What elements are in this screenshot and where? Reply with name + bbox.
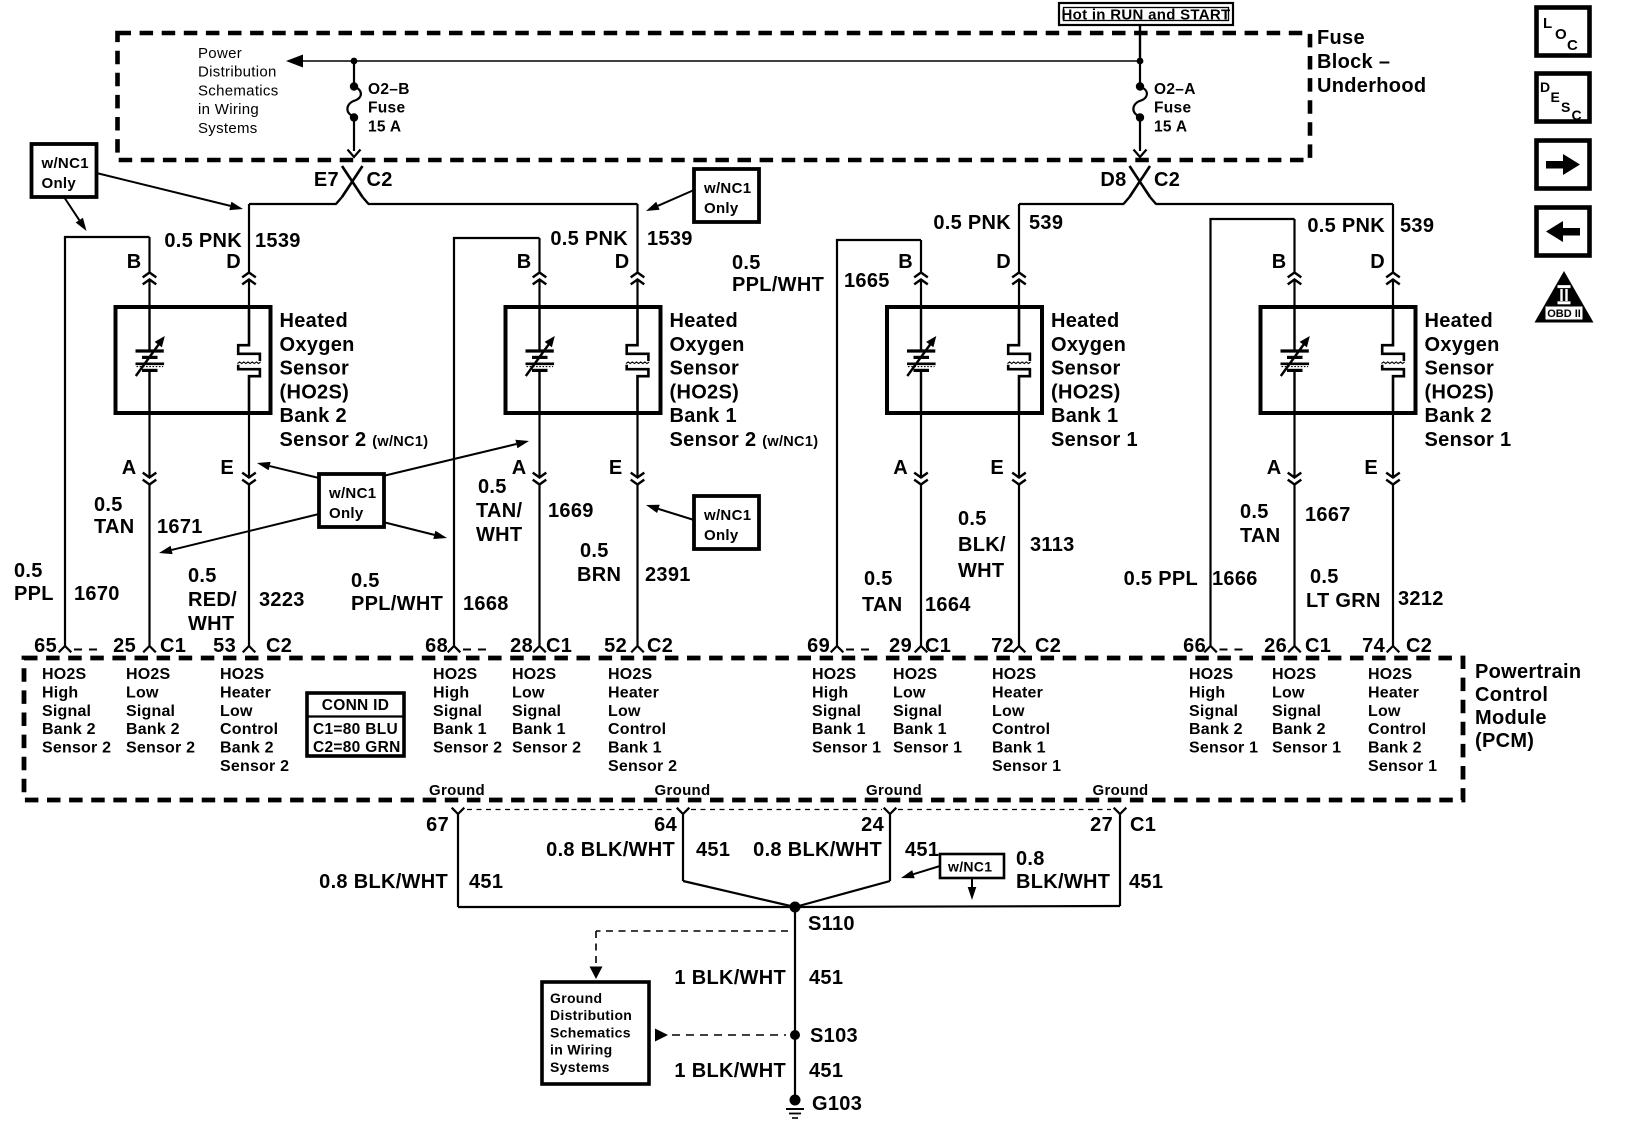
svg-text:Oxygen: Oxygen [1425,334,1500,356]
svg-text:Heated: Heated [1051,310,1120,332]
svg-text:Low: Low [893,684,926,701]
svg-text:29: 29 [889,635,912,657]
svg-text:1668: 1668 [463,593,509,615]
svg-text:O2–A: O2–A [1154,81,1196,98]
svg-text:1539: 1539 [647,228,693,250]
svg-text:Bank 2: Bank 2 [220,740,274,757]
svg-text:451: 451 [809,967,843,989]
svg-text:68: 68 [425,635,448,657]
svg-text:Fuse: Fuse [1154,100,1191,117]
svg-text:Signal: Signal [1189,703,1238,720]
svg-text:451: 451 [469,871,503,893]
svg-text:(HO2S): (HO2S) [280,381,350,403]
svg-text:1539: 1539 [255,230,301,252]
svg-text:Signal: Signal [812,703,861,720]
svg-text:Only: Only [329,505,364,522]
svg-text:C2: C2 [266,635,292,657]
svg-text:Bank 1: Bank 1 [812,721,866,738]
svg-text:2391: 2391 [645,564,691,586]
svg-text:15 A: 15 A [1154,119,1187,136]
svg-text:LT GRN: LT GRN [1306,590,1381,612]
svg-text:TAN/: TAN/ [476,500,523,522]
svg-text:C1=80 BLU: C1=80 BLU [313,721,398,738]
svg-text:C1: C1 [160,635,186,657]
svg-text:Fuse: Fuse [368,100,405,117]
svg-text:High: High [42,684,78,701]
svg-text:BLK/WHT: BLK/WHT [1016,871,1110,893]
svg-text:Bank 2: Bank 2 [1368,740,1422,757]
svg-text:B: B [517,251,532,273]
svg-text:Sensor 1: Sensor 1 [992,758,1061,775]
svg-text:C1: C1 [925,635,951,657]
svg-text:PPL: PPL [14,583,54,605]
svg-text:Control: Control [1475,684,1548,706]
svg-text:B: B [1272,251,1287,273]
svg-text:Bank 2: Bank 2 [1272,721,1326,738]
svg-text:Sensor 1: Sensor 1 [1425,429,1512,451]
svg-text:WHT: WHT [476,524,522,546]
svg-text:Low: Low [1272,684,1305,701]
svg-text:Sensor 1: Sensor 1 [1368,758,1437,775]
svg-text:Low: Low [608,703,641,720]
svg-text:HO2S: HO2S [433,666,477,683]
svg-text:WHT: WHT [958,560,1004,582]
svg-text:OBD II: OBD II [1547,308,1581,320]
svg-text:Ground: Ground [1093,782,1149,799]
svg-text:26: 26 [1264,635,1287,657]
svg-text:in Wiring: in Wiring [550,1042,612,1058]
svg-text:Sensor 2 (w/NC1): Sensor 2 (w/NC1) [670,429,819,451]
svg-text:Bank 2: Bank 2 [280,405,347,427]
svg-text:Low: Low [220,703,253,720]
svg-text:Low: Low [512,684,545,701]
svg-text:Bank 1: Bank 1 [670,405,737,427]
svg-text:TAN: TAN [94,516,135,538]
svg-text:(HO2S): (HO2S) [1051,381,1121,403]
svg-text:539: 539 [1029,212,1063,234]
svg-text:3223: 3223 [259,589,305,611]
svg-text:HO2S: HO2S [1189,666,1233,683]
svg-text:Fuse: Fuse [1317,27,1365,49]
svg-text:0.5: 0.5 [864,568,893,590]
svg-text:0.5: 0.5 [732,252,761,274]
svg-text:Bank 2: Bank 2 [42,721,96,738]
svg-text:74: 74 [1362,635,1385,657]
svg-text:Sensor 2: Sensor 2 [220,758,289,775]
svg-text:HO2S: HO2S [893,666,937,683]
svg-text:Heater: Heater [608,684,659,701]
svg-text:BRN: BRN [577,564,621,586]
svg-text:C2=80 GRN: C2=80 GRN [313,739,401,756]
svg-text:Sensor 2: Sensor 2 [42,740,111,757]
svg-text:Schematics: Schematics [550,1024,631,1040]
svg-text:w/NC1: w/NC1 [703,507,751,524]
svg-text:High: High [433,684,469,701]
svg-text:S103: S103 [810,1025,858,1047]
svg-text:Signal: Signal [126,703,175,720]
svg-text:28: 28 [510,635,533,657]
svg-text:Sensor 2 (w/NC1): Sensor 2 (w/NC1) [280,429,429,451]
svg-text:Only: Only [42,175,77,192]
svg-text:S110: S110 [808,913,855,935]
svg-text:Ground: Ground [429,782,485,799]
svg-text:0.5: 0.5 [14,560,43,582]
svg-text:C2: C2 [1406,635,1432,657]
svg-text:E: E [1551,89,1561,105]
svg-text:O2–B: O2–B [368,81,410,98]
svg-text:Sensor 1: Sensor 1 [1189,740,1258,757]
svg-text:B: B [127,251,142,273]
svg-text:w/NC1: w/NC1 [328,485,376,502]
svg-text:0.5: 0.5 [1310,566,1339,588]
svg-text:Heater: Heater [220,684,271,701]
svg-text:C1: C1 [1130,814,1156,836]
svg-text:D: D [1540,79,1550,95]
svg-text:BLK/: BLK/ [958,534,1006,556]
svg-text:Sensor 2: Sensor 2 [433,740,502,757]
svg-text:Underhood: Underhood [1317,75,1426,97]
svg-text:(HO2S): (HO2S) [670,381,740,403]
svg-text:Sensor 1: Sensor 1 [1051,429,1138,451]
svg-text:Distribution: Distribution [550,1007,632,1023]
svg-text:Ground: Ground [655,782,711,799]
svg-text:HO2S: HO2S [220,666,264,683]
svg-text:Module: Module [1475,707,1547,729]
svg-text:3113: 3113 [1030,534,1075,556]
svg-text:D: D [996,251,1011,273]
svg-text:Sensor: Sensor [1051,358,1121,380]
svg-text:Powertrain: Powertrain [1475,661,1581,683]
svg-text:1666: 1666 [1212,568,1258,590]
svg-text:Bank 2: Bank 2 [126,721,180,738]
svg-text:Signal: Signal [512,703,561,720]
svg-text:Heated: Heated [280,310,349,332]
svg-text:C2: C2 [1035,635,1061,657]
svg-text:539: 539 [1400,215,1434,237]
svg-text:Bank 2: Bank 2 [1189,721,1243,738]
svg-text:67: 67 [426,814,449,836]
svg-text:C2: C2 [647,635,673,657]
svg-text:Oxygen: Oxygen [670,334,745,356]
svg-text:0.8 BLK/WHT: 0.8 BLK/WHT [546,839,675,861]
svg-text:Signal: Signal [893,703,942,720]
svg-text:64: 64 [654,814,677,836]
svg-text:Heated: Heated [670,310,739,332]
svg-text:E: E [990,457,1004,479]
svg-text:Sensor: Sensor [1425,358,1495,380]
svg-text:Distribution: Distribution [198,64,277,81]
svg-text:Heater: Heater [992,684,1043,701]
svg-text:451: 451 [1129,871,1163,893]
svg-text:Block –: Block – [1317,51,1390,73]
svg-text:Systems: Systems [550,1059,610,1075]
svg-text:Power: Power [198,45,242,62]
svg-text:C1: C1 [546,635,572,657]
svg-text:0.8 BLK/WHT: 0.8 BLK/WHT [753,839,882,861]
svg-text:1 BLK/WHT: 1 BLK/WHT [674,967,786,989]
svg-text:Bank 1: Bank 1 [608,740,662,757]
svg-text:HO2S: HO2S [126,666,170,683]
svg-text:15 A: 15 A [368,119,401,136]
svg-text:G103: G103 [812,1093,862,1115]
svg-text:Heater: Heater [1368,684,1419,701]
svg-text:24: 24 [861,814,884,836]
svg-text:PPL/WHT: PPL/WHT [732,274,824,296]
svg-text:S: S [1561,99,1571,115]
svg-text:66: 66 [1183,635,1206,657]
svg-text:CONN ID: CONN ID [322,697,390,714]
svg-text:0.5 PNK: 0.5 PNK [933,212,1011,234]
svg-text:0.8 BLK/WHT: 0.8 BLK/WHT [319,871,448,893]
svg-text:Oxygen: Oxygen [1051,334,1126,356]
svg-text:69: 69 [807,635,830,657]
svg-text:1665: 1665 [844,270,890,292]
svg-text:Sensor 2: Sensor 2 [126,740,195,757]
svg-text:O: O [1555,26,1567,43]
svg-text:Bank 1: Bank 1 [992,740,1046,757]
svg-text:C2: C2 [1154,169,1180,191]
svg-text:Systems: Systems [198,120,258,137]
svg-text:A: A [512,457,527,479]
svg-text:TAN: TAN [862,594,903,616]
svg-text:w/NC1: w/NC1 [703,180,751,197]
svg-text:D: D [1370,251,1385,273]
svg-text:E: E [609,457,623,479]
svg-text:in Wiring: in Wiring [198,101,259,118]
svg-text:0.5 PNK: 0.5 PNK [550,228,628,250]
svg-text:HO2S: HO2S [992,666,1036,683]
svg-text:Bank 1: Bank 1 [433,721,487,738]
svg-text:Sensor 1: Sensor 1 [812,740,881,757]
svg-text:High: High [1189,684,1225,701]
svg-text:3212: 3212 [1398,588,1444,610]
svg-text:1664: 1664 [925,594,971,616]
svg-text:w/NC1: w/NC1 [947,859,992,875]
svg-text:WHT: WHT [188,613,234,635]
svg-text:0.5: 0.5 [958,508,987,530]
svg-text:Oxygen: Oxygen [280,334,355,356]
svg-text:Signal: Signal [42,703,91,720]
svg-text:Bank 1: Bank 1 [512,721,566,738]
svg-text:w/NC1: w/NC1 [41,155,89,172]
svg-text:0.8: 0.8 [1016,848,1045,870]
svg-text:1670: 1670 [74,583,120,605]
svg-text:C1: C1 [1305,635,1331,657]
svg-text:HO2S: HO2S [608,666,652,683]
svg-text:PPL/WHT: PPL/WHT [351,593,443,615]
svg-text:C: C [1567,37,1578,54]
svg-text:0.5 PPL: 0.5 PPL [1124,568,1198,590]
svg-text:Bank 2: Bank 2 [1425,405,1492,427]
svg-text:Low: Low [992,703,1025,720]
svg-text:1667: 1667 [1305,504,1351,526]
svg-text:Low: Low [1368,703,1401,720]
svg-text:27: 27 [1090,814,1113,836]
svg-text:HO2S: HO2S [42,666,86,683]
svg-text:0.5: 0.5 [478,476,507,498]
svg-text:Heated: Heated [1425,310,1494,332]
svg-text:RED/: RED/ [188,589,237,611]
svg-text:A: A [122,457,137,479]
svg-text:451: 451 [905,839,939,861]
svg-text:Signal: Signal [1272,703,1321,720]
svg-text:Only: Only [704,527,739,544]
svg-text:HO2S: HO2S [1368,666,1412,683]
svg-text:Sensor 1: Sensor 1 [1272,740,1341,757]
svg-text:Bank 1: Bank 1 [1051,405,1118,427]
svg-text:Control: Control [1368,721,1426,738]
svg-text:Sensor: Sensor [280,358,350,380]
svg-text:Control: Control [220,721,278,738]
svg-text:HO2S: HO2S [1272,666,1316,683]
svg-text:E: E [220,457,234,479]
svg-text:0.5 PNK: 0.5 PNK [1307,215,1385,237]
svg-text:25: 25 [113,635,136,657]
svg-text:D8: D8 [1100,169,1126,191]
svg-text:65: 65 [34,635,57,657]
svg-text:451: 451 [696,839,730,861]
svg-text:0.5 PNK: 0.5 PNK [164,230,242,252]
svg-text:A: A [1267,457,1282,479]
svg-text:C: C [1572,107,1582,123]
svg-text:1 BLK/WHT: 1 BLK/WHT [674,1060,786,1082]
svg-text:A: A [893,457,908,479]
svg-text:Control: Control [608,721,666,738]
svg-text:(PCM): (PCM) [1475,730,1534,752]
svg-text:(HO2S): (HO2S) [1425,381,1495,403]
svg-text:Control: Control [992,721,1050,738]
svg-text:Only: Only [704,200,739,217]
svg-text:D: D [615,251,630,273]
svg-text:E: E [1364,457,1378,479]
svg-text:HO2S: HO2S [812,666,856,683]
svg-text:0.5: 0.5 [1240,501,1269,523]
svg-text:451: 451 [809,1060,843,1082]
svg-text:Sensor: Sensor [670,358,740,380]
svg-text:1671: 1671 [157,516,203,538]
svg-text:1669: 1669 [548,500,594,522]
svg-text:E7: E7 [314,169,339,191]
svg-text:L: L [1543,15,1552,32]
svg-text:Ground: Ground [550,990,602,1006]
svg-text:0.5: 0.5 [351,570,380,592]
svg-text:0.5: 0.5 [188,565,217,587]
svg-text:HO2S: HO2S [512,666,556,683]
svg-text:0.5: 0.5 [580,540,609,562]
svg-text:53: 53 [213,635,236,657]
svg-text:High: High [812,684,848,701]
svg-text:Low: Low [126,684,159,701]
svg-text:Sensor 1: Sensor 1 [893,740,962,757]
svg-text:D: D [226,251,241,273]
svg-text:TAN: TAN [1240,525,1281,547]
svg-text:Sensor 2: Sensor 2 [512,740,581,757]
svg-text:52: 52 [604,635,627,657]
svg-text:B: B [898,251,913,273]
svg-text:Sensor 2: Sensor 2 [608,758,677,775]
svg-text:Schematics: Schematics [198,82,279,99]
svg-text:72: 72 [991,635,1014,657]
svg-text:Ground: Ground [866,782,922,799]
svg-text:Bank 1: Bank 1 [893,721,947,738]
svg-text:0.5: 0.5 [94,494,123,516]
svg-text:Signal: Signal [433,703,482,720]
svg-text:C2: C2 [367,169,393,191]
svg-text:Hot in RUN and START: Hot in RUN and START [1061,7,1230,24]
